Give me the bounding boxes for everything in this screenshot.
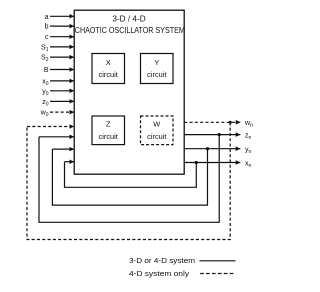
input b wire [50, 25, 74, 27]
svg-text:W: W [153, 120, 160, 129]
svg-text:S1: S1 [41, 44, 49, 53]
wn feedback loop wire (dashed) [27, 122, 230, 239]
svg-text:circuit: circuit [99, 70, 118, 79]
svg-text:xn: xn [245, 160, 252, 169]
yn feedback entry wire [52, 148, 74, 150]
Z circuit block [92, 116, 125, 145]
svg-text:CHAOTIC OSCILLATOR SYSTEM: CHAOTIC OSCILLATOR SYSTEM [75, 25, 185, 35]
svg-text:3-D / 4-D: 3-D / 4-D [112, 15, 145, 24]
legend dashed sample wire [200, 273, 235, 275]
svg-text:circuit: circuit [147, 70, 166, 79]
output wn wire (dashed) [184, 121, 240, 123]
svg-text:Z: Z [106, 120, 111, 129]
input S1 wire [50, 46, 74, 48]
junction dot wn [229, 121, 232, 124]
xn feedback entry wire [65, 161, 75, 163]
yn feedback loop wire [52, 149, 207, 205]
svg-text:X: X [106, 58, 111, 67]
svg-text:wn: wn [244, 120, 253, 129]
W circuit block (dashed, 4-D only) [141, 116, 174, 145]
output xn wire [184, 162, 240, 164]
xn feedback loop wire [65, 162, 197, 188]
input c wire [50, 36, 74, 38]
junction dot yn [206, 147, 209, 150]
input S2 wire [50, 56, 74, 58]
junction dot zn [218, 133, 221, 136]
svg-text:circuit: circuit [99, 132, 118, 141]
svg-text:S2: S2 [41, 55, 49, 64]
input w0 wire (dashed, 4-D only) [50, 111, 74, 113]
legend solid sample wire [200, 260, 236, 262]
svg-text:circuit: circuit [147, 132, 166, 141]
zn feedback loop wire [39, 135, 219, 223]
svg-text:4-D system only: 4-D system only [129, 269, 189, 278]
output zn wire [184, 134, 240, 136]
svg-text:y0: y0 [42, 88, 49, 97]
svg-text:zn: zn [245, 132, 252, 141]
zn feedback entry wire [39, 136, 74, 138]
X circuit block [92, 54, 125, 84]
input a wire [50, 15, 74, 17]
svg-text:c: c [45, 34, 49, 41]
svg-text:3-D or 4-D system: 3-D or 4-D system [129, 256, 195, 265]
input B wire [50, 69, 74, 71]
svg-text:a: a [45, 14, 49, 21]
svg-text:x0: x0 [42, 78, 49, 87]
input x0 wire [50, 80, 74, 82]
input z0 wire [50, 100, 74, 102]
svg-text:B: B [44, 67, 49, 74]
svg-text:yn: yn [245, 147, 252, 156]
svg-text:b: b [45, 24, 49, 31]
main system block U1 [74, 10, 184, 174]
wn feedback entry wire (dashed) [27, 126, 74, 128]
junction dot xn [195, 161, 198, 164]
svg-text:w0: w0 [40, 110, 49, 119]
svg-text:Y: Y [154, 58, 159, 67]
svg-text:z0: z0 [42, 99, 49, 108]
Y circuit block [141, 54, 174, 84]
output yn wire [184, 148, 240, 150]
input y0 wire [50, 90, 74, 92]
